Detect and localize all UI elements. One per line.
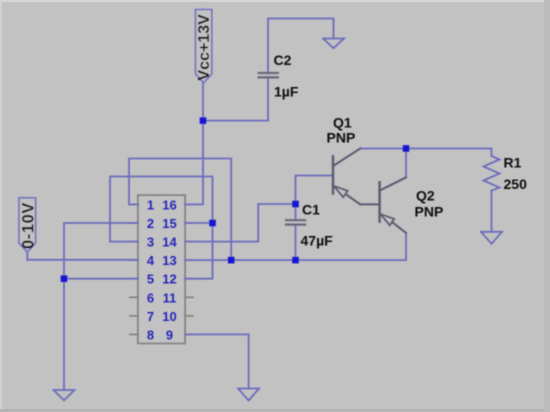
capacitor C1 symbol (286, 220, 305, 224)
wire J2 down to pin12 (185, 223, 212, 279)
svg-text:4: 4 (147, 253, 155, 268)
wire Q1 collector to J7 to R1 (360, 149, 491, 157)
wire J6 left down to pin14 (185, 204, 295, 242)
IC pin stubs (130, 204, 193, 334)
flag Vcc+13V (196, 10, 214, 83)
IC U1 body (138, 195, 185, 343)
capacitor C2 symbol (259, 73, 278, 77)
node J3 (228, 257, 235, 264)
svg-text:C2: C2 (274, 52, 292, 68)
wire pin3 to pins 15/12 (110, 177, 213, 242)
junction nodes (61, 117, 410, 282)
svg-text:16: 16 (162, 197, 176, 212)
svg-text:47µF: 47µF (301, 233, 334, 249)
wire J4 up to C1 bottom (295, 226, 297, 261)
ground (pin 9) (238, 389, 259, 401)
wire pin9 to ground (185, 334, 249, 388)
wire J6 up to Q1 base (296, 176, 333, 205)
transistor Q2 (380, 177, 406, 233)
wire J1 to C2 bottom (203, 78, 268, 121)
svg-text:0-10V: 0-10V (20, 202, 38, 249)
node J2 pin15 (209, 220, 216, 227)
svg-text:13: 13 (162, 253, 176, 268)
wire Vcc flag to junction J1 (202, 83, 204, 121)
wire 0-10V flag to pin4 (27, 252, 138, 260)
svg-text:8: 8 (147, 327, 154, 342)
node J5 pin5 gnd (61, 275, 68, 282)
wire pin2 left and down to ground (64, 223, 138, 390)
ground (left / pins 2,5) (54, 390, 75, 400)
transistor Q1 (333, 149, 380, 205)
svg-text:9: 9 (166, 327, 173, 342)
window bevel edges (0, 0, 550, 2)
node J7 collectors (403, 145, 410, 152)
flag 0-10V (19, 198, 38, 252)
svg-text:250: 250 (504, 176, 528, 192)
node J6 C1 top (292, 201, 299, 208)
svg-text:C1: C1 (302, 202, 320, 218)
wire R1 bottom to ground (491, 191, 493, 232)
svg-text:Q1: Q1 (333, 115, 352, 131)
wire J2 to pin15 (185, 222, 212, 224)
svg-text:3: 3 (147, 235, 154, 250)
svg-text:2: 2 (147, 216, 154, 231)
ground (C2) (323, 39, 344, 49)
svg-text:R1: R1 (504, 155, 522, 171)
svg-text:PNP: PNP (327, 130, 356, 146)
svg-text:15: 15 (162, 216, 176, 231)
svg-text:Vcc+13V: Vcc+13V (196, 14, 213, 81)
svg-text:Q2: Q2 (416, 188, 435, 204)
svg-text:5: 5 (147, 272, 154, 287)
wire C1 top to junction J6 (295, 204, 297, 220)
pin numbers (147, 197, 178, 342)
node J1 Vcc (200, 117, 207, 124)
wire J7 down Q2 collector pin (405, 149, 407, 178)
wire pin13 row to Q2 emitter (185, 233, 406, 260)
svg-text:PNP: PNP (415, 204, 444, 220)
wire J5 to pin5 (64, 278, 138, 280)
wire pin1 loop to junction J3 (129, 159, 231, 261)
svg-text:7: 7 (147, 309, 154, 324)
wire C2 top to ground (268, 19, 334, 73)
ground (R1) (481, 232, 502, 244)
svg-text:11: 11 (163, 290, 177, 305)
svg-text:14: 14 (162, 235, 177, 250)
svg-text:10: 10 (162, 309, 176, 324)
svg-text:1: 1 (147, 197, 154, 212)
resistor R1 (484, 156, 500, 191)
svg-text:1µF: 1µF (274, 84, 299, 100)
svg-text:6: 6 (147, 290, 154, 305)
node J4 C1 bottom (292, 257, 299, 264)
wire J1 down to pin16 (185, 121, 203, 205)
svg-text:12: 12 (162, 272, 176, 287)
